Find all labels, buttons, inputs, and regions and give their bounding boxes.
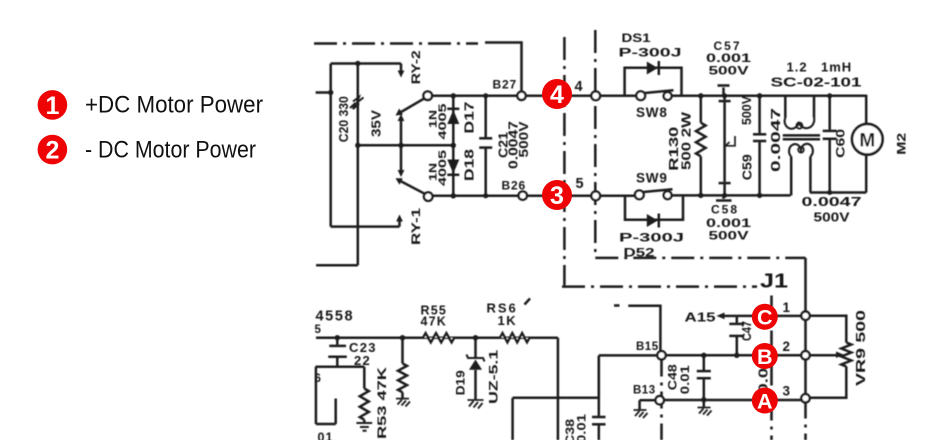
diode DS1 branch wire: [625, 68, 682, 96]
junction 0.0047 bottom: [757, 193, 762, 198]
wire: stub to lower left from C20: [316, 264, 358, 267]
capacitor C59 top plate: [719, 100, 731, 103]
junction at C20 left lead and stub: [328, 90, 333, 95]
capacitor C60 bottom plate: [823, 138, 837, 141]
transformer SC-02-101 primary right drop: [813, 96, 816, 118]
wire: board boundary dash-dot top horizontal: [314, 42, 478, 45]
switch SW9 arm: [643, 189, 672, 192]
annotation circle C: [752, 304, 778, 330]
wire: relay top fixed contact wire: [331, 62, 401, 65]
ground below B13 stub: [634, 410, 648, 418]
junction C47 bottom on B15 wire: [734, 353, 739, 358]
junction C23 on lower wire: [335, 335, 340, 340]
wire: relay lower fixed contact wire: [331, 225, 400, 228]
svg-text:A: A: [757, 389, 773, 413]
junction C48 bottom on B13 wire: [701, 397, 706, 402]
opamp 4558 output stub wire: [316, 336, 558, 339]
capacitor C38 top plate: [592, 416, 606, 419]
wire: small dash left of B15 stub: [614, 304, 620, 307]
wire: B15 net to connector pin 2: [666, 354, 802, 357]
capacitor C59 bottom stub: [723, 184, 726, 195]
svg-text:C47: C47: [740, 321, 754, 341]
svg-text:RY-1: RY-1: [409, 208, 423, 245]
motor M2 circle: [852, 124, 883, 155]
wire: bottom rail right of transformer: [810, 191, 866, 194]
svg-text:2: 2: [783, 339, 791, 354]
svg-text:1.2: 1.2: [787, 60, 808, 75]
svg-text:SW9: SW9: [636, 171, 668, 186]
capacitor C21 top lead: [484, 96, 487, 138]
capacitor C57 plate: [718, 84, 730, 87]
svg-text:47K: 47K: [421, 315, 448, 329]
switch SW8 left terminal circle: [636, 91, 645, 100]
capacitor C23 bottom lead: [336, 358, 339, 367]
relay bus top arrowhead: [398, 114, 405, 121]
transformer SC-02-101 core bar lower: [783, 138, 820, 141]
resistor R130 bottom lead: [700, 156, 703, 195]
wire: vertical dash-dot through B13: [660, 360, 663, 440]
wire: horizontal wire y398 to C38 column: [513, 397, 599, 400]
relay bus bottom arrowhead: [398, 170, 405, 177]
relay RY-2 pivot terminal circle: [423, 91, 432, 100]
svg-text:500V: 500V: [709, 64, 749, 78]
capacitor C20 polarity squiggle: [350, 97, 364, 109]
svg-text:SW8: SW8: [636, 105, 668, 120]
capacitor C38 column upper: [598, 356, 601, 416]
svg-text:4: 4: [575, 79, 583, 95]
wire: B13 net to connector pin 3: [664, 399, 802, 402]
svg-text:0.01: 0.01: [574, 414, 588, 440]
svg-text:SC-02-101: SC-02-101: [771, 75, 862, 90]
wire: relay common bus vertical: [400, 118, 403, 173]
wire: B15 net corner down: [598, 356, 601, 398]
wire: bottom-left partial box vertical: [315, 367, 318, 424]
svg-text:C59: C59: [739, 154, 754, 180]
legend circle 1: [38, 90, 68, 120]
junction relay bus and middle wire: [398, 143, 403, 148]
capacitor C47 bottom plate: [729, 335, 744, 338]
transformer SC-02-101 secondary right riser: [809, 157, 812, 193]
svg-text:D17: D17: [463, 101, 477, 133]
ground below R54: [396, 399, 410, 407]
capacitor C20 left lead vertical: [329, 64, 332, 227]
svg-text:B13: B13: [633, 385, 656, 397]
wire: relay lower contact arrowhead: [396, 215, 403, 222]
junction C60 top: [827, 93, 832, 98]
label A15 arrow line: [722, 315, 737, 318]
connector J1 pin 1 circle: [801, 312, 809, 320]
svg-text:VR9 500: VR9 500: [854, 310, 868, 386]
relay RY-2 moving contact arm: [399, 98, 425, 113]
wire: VR9 bottom to pin 3: [810, 367, 847, 398]
diode D17 cathode bar: [447, 108, 459, 111]
diode DS2 cathode bar: [658, 214, 661, 228]
junction diode column top: [451, 93, 456, 98]
svg-text:D19: D19: [453, 370, 467, 395]
capacitor C38 bottom plate: [592, 423, 606, 426]
wire: bottom-left partial box right vertical: [334, 399, 337, 425]
resistor R130 zigzag: [696, 123, 706, 157]
capacitor C48 top lead: [703, 355, 706, 370]
svg-text:B: B: [757, 345, 773, 369]
diode D18 triangle pointing down: [447, 160, 459, 174]
capacitor C47 top plate: [729, 323, 744, 326]
switch SW8 right terminal circle: [664, 92, 672, 100]
switch SW8 arm: [645, 90, 674, 93]
junction D19 on lower wire: [473, 335, 478, 340]
svg-text:500V: 500V: [739, 96, 754, 125]
svg-text:C: C: [757, 306, 773, 330]
capacitor C48 top plate: [697, 370, 711, 373]
svg-text:6: 6: [315, 373, 321, 385]
wire: J1 connector vertical line through pins: [804, 258, 807, 399]
capacitor C21 top plate: [479, 137, 492, 140]
wire: bottom-left partial box horizontal: [316, 423, 336, 426]
wire: top motor power rail left section: [430, 95, 637, 98]
switch SW9 left terminal circle: [635, 190, 644, 199]
svg-text:35V: 35V: [369, 109, 383, 137]
diode D17 triangle pointing up: [447, 110, 459, 124]
svg-text:3: 3: [550, 182, 564, 210]
ground below D19: [468, 400, 484, 409]
transformer SC-02-101 primary winding curl: [796, 123, 802, 129]
diode column D17 D18 vertical: [452, 96, 455, 196]
svg-text:C58: C58: [711, 203, 739, 217]
resistor R53 zigzag: [360, 389, 369, 420]
wire: relay lower fixed contact hook up: [398, 220, 401, 227]
relay RY-2 arm arrowhead: [396, 109, 404, 116]
capacitor C23 bottom plate: [328, 355, 347, 358]
svg-text:01: 01: [318, 431, 334, 440]
svg-text:B26: B26: [502, 179, 526, 193]
svg-text:D18: D18: [463, 149, 477, 181]
capacitor C60 top plate: [823, 130, 837, 133]
wire: B13 left stub: [640, 399, 656, 402]
junction C60 bottom: [827, 190, 832, 195]
annotation circle A: [752, 388, 778, 414]
svg-text:C48: C48: [668, 363, 680, 390]
wire: bottom motor power rail left section: [431, 195, 637, 198]
transformer SC-02-101 secondary winding curl: [798, 147, 804, 153]
connector J1 pin 3 circle: [801, 394, 809, 402]
junction R54 on lower wire: [400, 335, 405, 340]
capacitor C47 top lead: [736, 316, 739, 323]
annotation circle 4: [542, 79, 572, 109]
terminal circle B13: [656, 396, 664, 404]
diode DS1 triangle: [647, 62, 658, 75]
wire: vertical dash-dot boundary through terminals 4,5: [594, 30, 597, 258]
zener diode D19 top lead: [474, 338, 477, 358]
capacitor 0.0047 top lead: [758, 96, 761, 133]
wire: relay top contact arrowhead: [398, 71, 405, 78]
svg-text:C60: C60: [834, 128, 848, 157]
wire: middle wire from C20 to diode column: [358, 144, 454, 147]
relay RY-1 arm arrowhead: [396, 178, 403, 185]
capacitor C48 bottom plate: [697, 377, 711, 380]
relay RY-1 pivot terminal circle: [424, 192, 433, 201]
resistor R53 top lead: [363, 367, 366, 389]
wire: B15 wire to terminal: [599, 354, 658, 357]
capacitor C38 column lower: [598, 425, 601, 440]
capacitor C59 body vertical: [723, 102, 726, 182]
resistor R53 bottom lead: [363, 420, 366, 423]
zener diode D19 cathode bar with bent tips: [467, 355, 485, 362]
potentiometer VR9 zigzag: [841, 343, 851, 367]
wire: pin 1 to VR9 top: [810, 316, 847, 343]
junction C21 top: [483, 93, 488, 98]
wire: dash-dot horizontal board edge above J1: [562, 285, 757, 288]
capacitor C60 top lead: [828, 96, 831, 130]
capacitor C59 trimmer mark: [724, 136, 735, 147]
wire: B13 stub corner down: [638, 400, 641, 410]
svg-text:1K: 1K: [498, 313, 518, 328]
capacitor C23 top plate: [329, 345, 346, 348]
wire: pin 2 wiper arrow line: [810, 354, 837, 357]
junction middle wire at C20 right lead: [355, 143, 360, 148]
resistor R55 zigzag on lower wire: [423, 333, 454, 342]
junction C59 top: [722, 93, 727, 98]
capacitor C21 bottom lead: [484, 149, 487, 196]
resistor R54 zigzag: [398, 364, 407, 393]
junction diode column middle: [451, 143, 456, 148]
wire: relay top fixed contact stub with arrow: [400, 64, 403, 73]
junction 0.0047 top: [757, 93, 762, 98]
capacitor C23 top lead: [336, 338, 339, 345]
apostrophe tick mark above RS6: [525, 299, 531, 305]
svg-text:- DC Motor Power: - DC Motor Power: [85, 137, 256, 164]
svg-text:R53 47K: R53 47K: [375, 367, 389, 439]
transformer SC-02-101 secondary winding bumps: [789, 144, 813, 157]
wire: motor top lead corner: [865, 95, 868, 126]
wire: B27 riser from top: [485, 43, 522, 94]
svg-text:0.0047: 0.0047: [768, 108, 783, 172]
wire: feedback wire below C23: [316, 366, 365, 369]
svg-text:4005: 4005: [437, 150, 449, 186]
wire: left entry stub: [316, 91, 331, 94]
switch SW9 right terminal circle: [664, 191, 672, 199]
svg-text:1mH: 1mH: [821, 60, 852, 75]
diode DS2 triangle: [647, 214, 658, 227]
terminal circle B15: [657, 351, 665, 359]
svg-text:4005: 4005: [437, 104, 449, 140]
junction on top fixed contact wire at C20 right lead: [355, 61, 360, 66]
svg-text:P-300J: P-300J: [619, 46, 682, 60]
svg-text:2: 2: [45, 137, 59, 165]
svg-text:1: 1: [45, 92, 59, 120]
main lower wire corner down at right: [557, 338, 560, 440]
transformer SC-02-101 secondary left riser: [790, 157, 793, 196]
capacitor C60 bottom lead: [828, 140, 831, 193]
svg-text:J1: J1: [760, 271, 788, 293]
legend circle 2: [38, 135, 68, 165]
terminal circle B27: [517, 92, 525, 100]
junction C21 bottom: [483, 193, 488, 198]
diode DS2 branch wire: [625, 195, 683, 219]
wire: vertical dash-dot through circles C,B,A: [770, 296, 773, 440]
svg-text:3: 3: [783, 384, 791, 399]
svg-text:DS1: DS1: [622, 31, 651, 45]
transformer SC-02-101 core bar upper: [783, 134, 820, 137]
svg-text:5: 5: [576, 176, 584, 192]
connector J1 pin 2 circle: [801, 351, 809, 359]
capacitor C59 bottom plate: [719, 182, 731, 185]
diode DS1 cathode bar: [658, 61, 661, 75]
svg-text:1: 1: [783, 300, 791, 315]
relay RY-1 moving contact arm: [399, 180, 425, 194]
svg-text:0.01: 0.01: [680, 364, 692, 394]
svg-text:500 2W: 500 2W: [679, 111, 694, 170]
terminal circle 4 on dash-dot line: [591, 91, 600, 100]
svg-text:D52: D52: [624, 246, 655, 260]
svg-text:500V: 500V: [516, 121, 531, 157]
wire: bottom motor power rail middle section: [672, 194, 791, 197]
resistor R54 bottom lead: [401, 392, 404, 398]
wire: B15 upper stub L shape: [628, 306, 660, 352]
svg-text:0.0047: 0.0047: [802, 194, 862, 209]
terminal circle 5 on dash-dot line: [591, 191, 600, 200]
wire: J1 connector vertical dash-dot below pin 3: [804, 399, 807, 440]
svg-text:5: 5: [315, 324, 322, 336]
diode D18 cathode bar: [447, 174, 459, 177]
capacitor C59 top stub: [723, 96, 726, 100]
svg-text:B15: B15: [636, 341, 659, 353]
resistor R56 zigzag on lower wire: [500, 333, 530, 342]
svg-text:22: 22: [354, 353, 371, 368]
capacitor C47 bottom lead: [736, 337, 739, 355]
svg-text:+DC Motor Power: +DC Motor Power: [85, 92, 263, 119]
svg-text:4: 4: [550, 81, 564, 109]
wire: A15 net to connector pin 1: [737, 315, 802, 318]
svg-text:RY-2: RY-2: [409, 50, 423, 84]
resistor R54 top lead: [401, 338, 404, 364]
svg-text:P-300J: P-300J: [619, 231, 684, 245]
VR9 wiper arrowhead: [836, 352, 844, 359]
junction C59 bottom: [722, 193, 727, 198]
ground stub below C48: [703, 400, 706, 408]
transformer SC-02-101 primary winding bumps: [785, 118, 815, 129]
capacitor C21 bottom plate: [479, 146, 492, 149]
svg-text:A15: A15: [685, 311, 716, 325]
wire: motor bottom lead: [865, 154, 868, 193]
svg-text:4558: 4558: [316, 309, 355, 325]
junction diode column bottom: [451, 193, 456, 198]
ground below R53: [356, 423, 372, 431]
resistor R130 top lead: [700, 96, 703, 123]
wire: vertical dash-dot boundary left of SW column: [563, 37, 566, 285]
capacitor C48 bottom lead: [703, 379, 706, 400]
capacitor 0.0047 top plate: [753, 133, 766, 136]
annotation circle B: [752, 343, 778, 369]
svg-text:C20 330: C20 330: [337, 96, 351, 142]
svg-text:500V: 500V: [709, 229, 749, 243]
zener diode D19 bottom lead: [474, 370, 477, 400]
capacitor C20 right lead vertical with 35V electrolytic: [357, 64, 360, 266]
junction C48 top on B15 wire: [701, 353, 706, 358]
ground below C48: [698, 408, 712, 416]
wire: dash-dot horizontal below D52 to connector J1: [595, 257, 805, 260]
junction R130 top: [698, 93, 703, 98]
wire: top motor power rail right section: [672, 95, 866, 98]
zener diode D19 triangle pointing up: [469, 360, 482, 370]
capacitor C58 stub lead: [722, 195, 725, 198]
capacitor 0.0047 bottom lead: [758, 142, 761, 195]
svg-text:B27: B27: [493, 78, 517, 92]
terminal circle B26: [519, 191, 527, 199]
transformer SC-02-101 primary left drop: [784, 96, 787, 118]
svg-text:500V: 500V: [814, 210, 850, 225]
svg-text:M2: M2: [895, 132, 909, 154]
svg-text:UZ-5.1: UZ-5.1: [487, 349, 501, 403]
capacitor 0.0047 bottom plate: [753, 140, 766, 143]
capacitor C58 plate: [716, 199, 732, 202]
wire: vertical from hline y398 down at x512: [511, 398, 514, 440]
junction R130 bottom: [698, 193, 703, 198]
label A15 arrowhead pointing left: [717, 313, 725, 320]
annotation circle 3: [542, 180, 572, 210]
svg-text:M: M: [859, 130, 875, 151]
capacitor C57 stub lead: [722, 88, 725, 96]
